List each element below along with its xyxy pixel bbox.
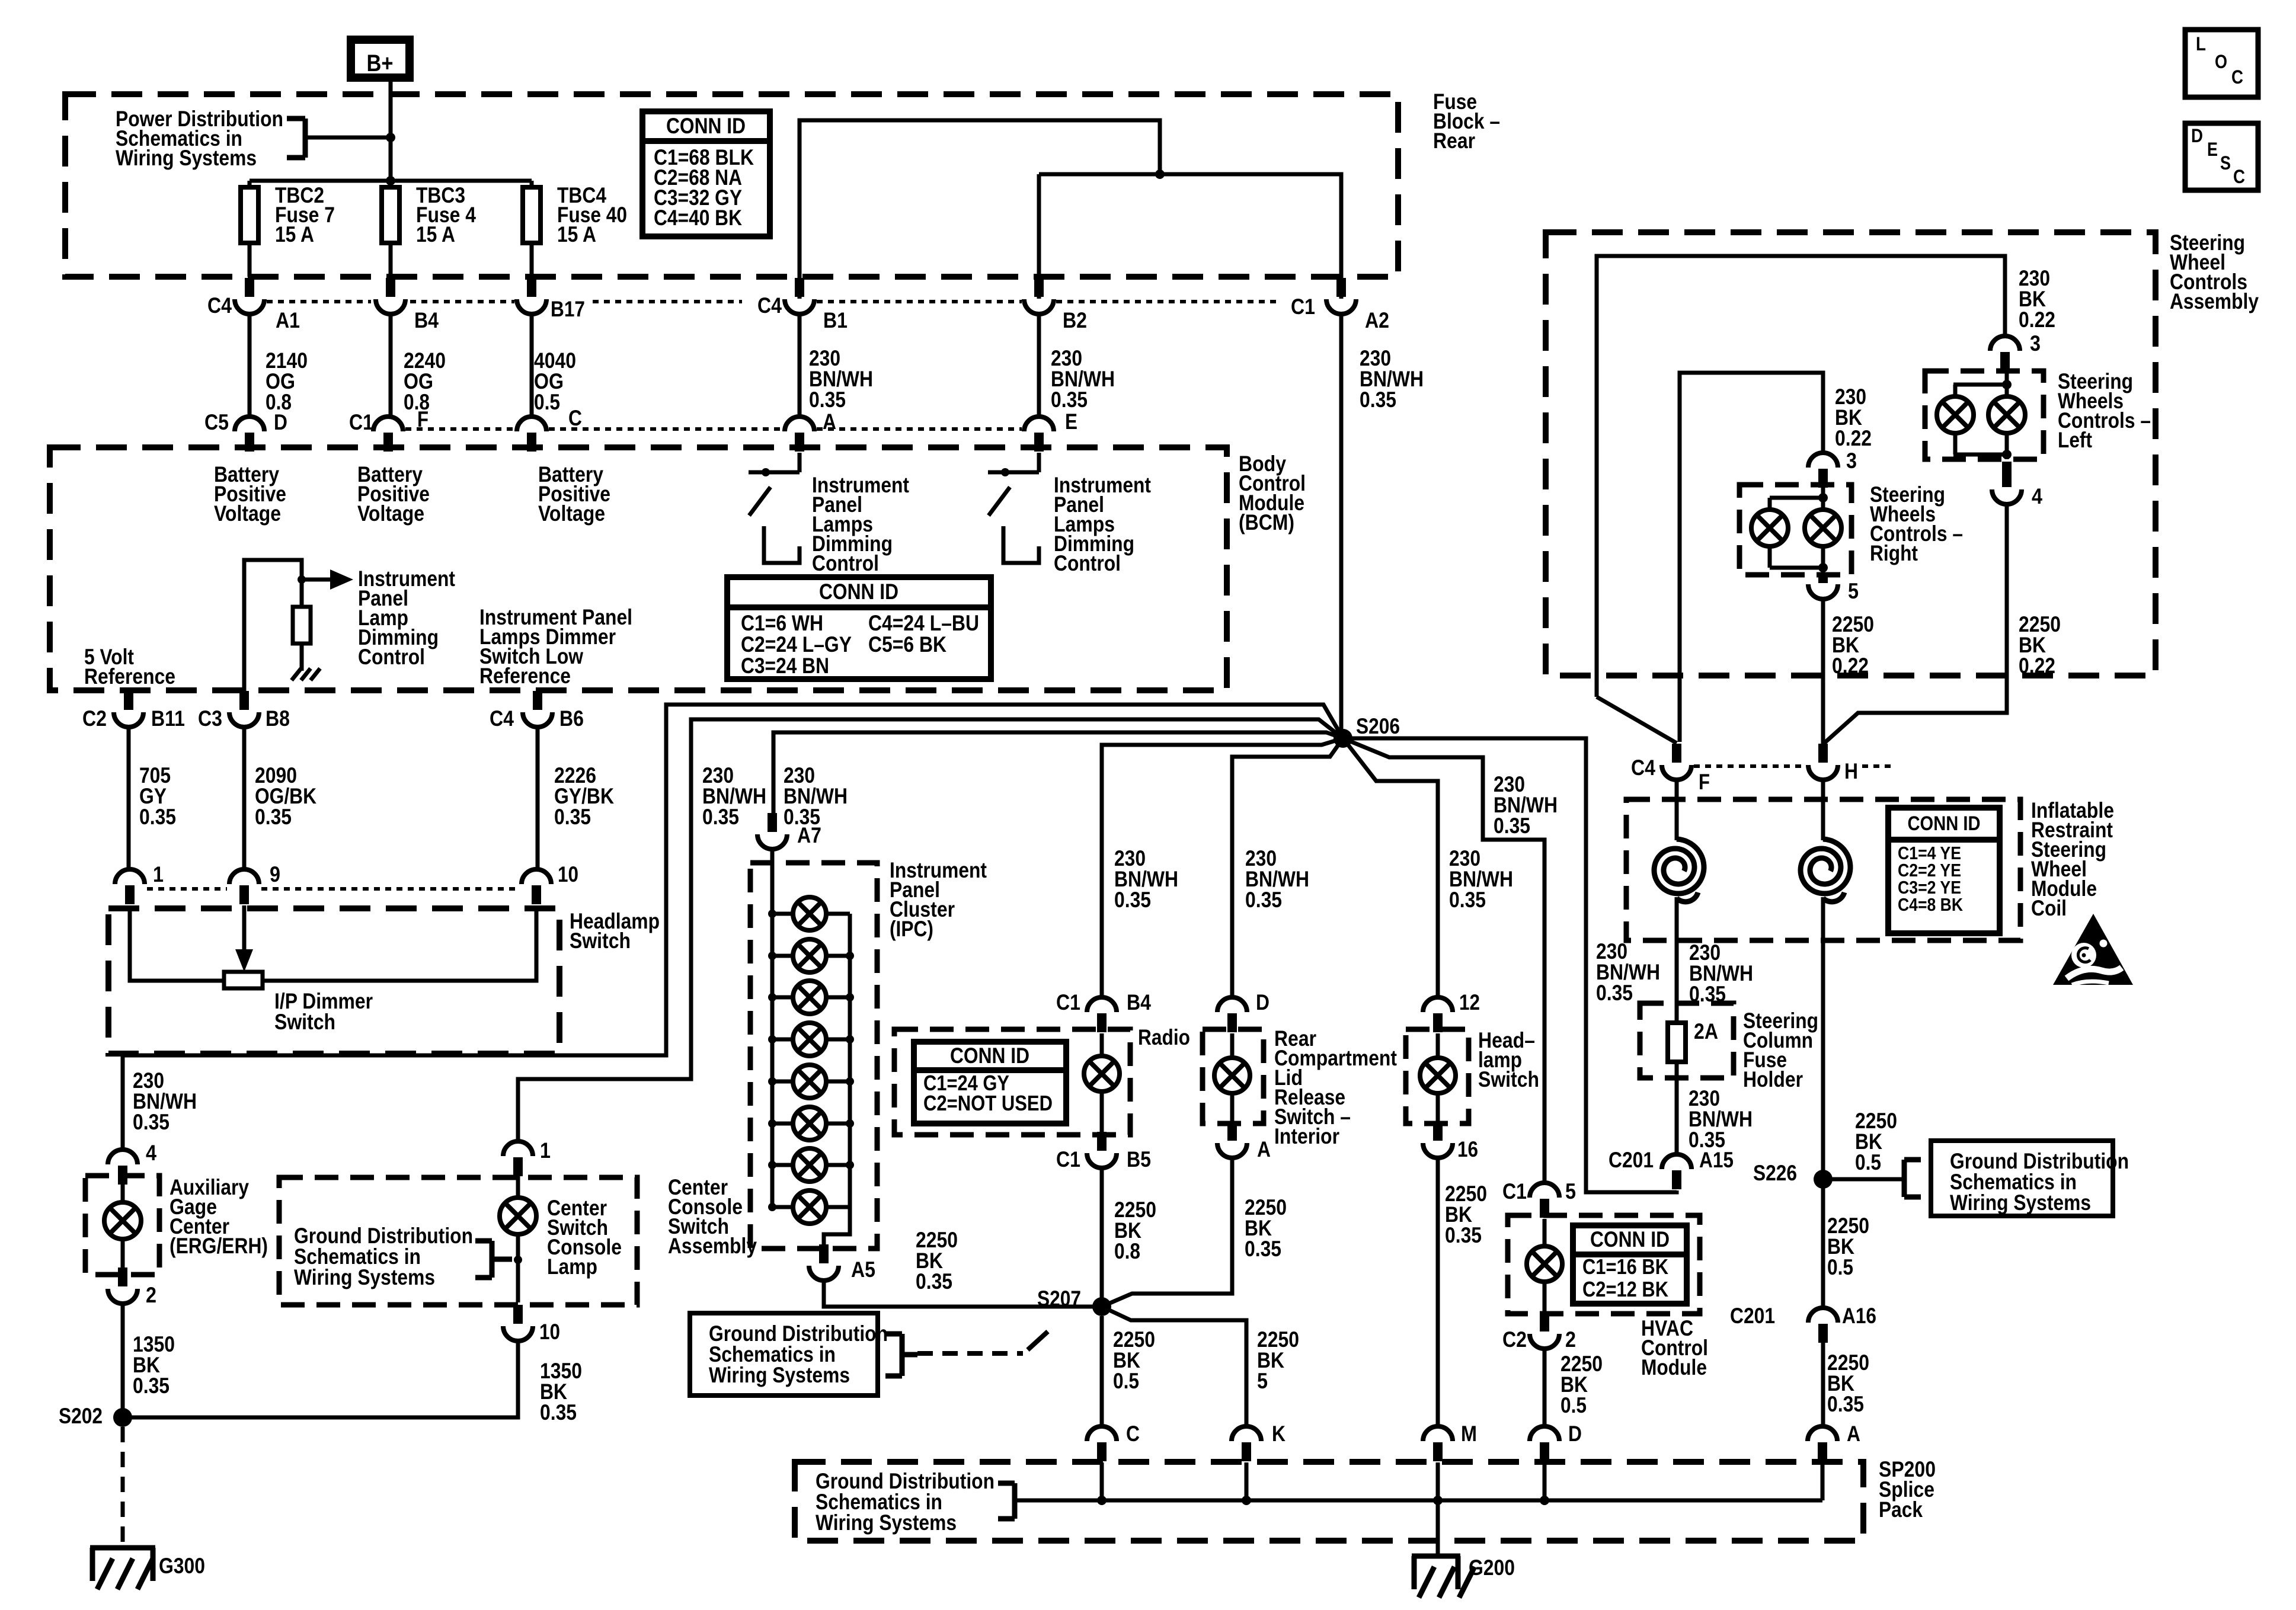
svg-text:0.35: 0.35 xyxy=(916,1269,952,1294)
svg-text:Left: Left xyxy=(2058,428,2092,452)
dotted connector line F-H xyxy=(1694,764,1895,768)
label 2240 OG 0.8 xyxy=(404,348,446,414)
label G200 xyxy=(1469,1555,1515,1580)
inflatable restraint coil dashed box xyxy=(1626,799,2020,940)
svg-text:0.35: 0.35 xyxy=(1245,888,1282,912)
svg-text:S206: S206 xyxy=(1356,714,1400,738)
svg-text:S207: S207 xyxy=(1037,1286,1081,1311)
svg-text:Switch: Switch xyxy=(274,1010,335,1034)
label 2250 BK 0.35 headlamp xyxy=(1445,1182,1487,1247)
svg-text:O: O xyxy=(2215,51,2227,72)
hvac control module dashed box xyxy=(1508,1215,1700,1314)
svg-text:C: C xyxy=(568,406,582,430)
LOC box xyxy=(2185,30,2258,97)
svg-text:CONN ID: CONN ID xyxy=(1590,1227,1670,1251)
headlamp switch lamp dashed box xyxy=(1406,1029,1469,1124)
label Battery Positive Voltage 2 xyxy=(357,462,430,526)
label I/P Dimmer Switch xyxy=(274,989,373,1034)
connector D rear lid xyxy=(1217,990,1269,1032)
label Fuse Block - Rear xyxy=(1433,89,1500,153)
svg-text:B8: B8 xyxy=(266,706,290,731)
connector A ground xyxy=(1808,1422,1860,1461)
svg-text:0.5: 0.5 xyxy=(1560,1393,1587,1417)
label 2250 BK 0.5 S207 xyxy=(1113,1327,1155,1393)
svg-text:15 A: 15 A xyxy=(557,222,596,247)
svg-text:9: 9 xyxy=(270,862,280,886)
arrow ip dimmer wiper xyxy=(235,905,253,972)
connector 9 headlamp switch xyxy=(229,862,280,904)
connector C batt xyxy=(517,406,582,452)
bracket ground note bottom xyxy=(998,1483,1015,1519)
label Inflatable Restraint Steering Wheel Module Coil xyxy=(2031,798,2114,920)
svg-text:Wiring Systems: Wiring Systems xyxy=(1950,1190,2091,1215)
svg-text:A5: A5 xyxy=(851,1257,875,1282)
switch symbol dimming control 1 xyxy=(749,453,800,563)
splice S206 xyxy=(1334,729,1352,748)
svg-text:C4: C4 xyxy=(490,706,514,731)
svg-text:4: 4 xyxy=(2032,484,2042,508)
svg-text:C5: C5 xyxy=(204,410,229,434)
label 1350 BK 0.35 console xyxy=(540,1359,582,1425)
wire S206 to steering column A15 xyxy=(1343,738,1677,1192)
svg-text:C3: C3 xyxy=(198,706,222,731)
svg-text:F: F xyxy=(1699,770,1710,794)
label 1350 BK 0.35 aux xyxy=(133,1332,175,1398)
svg-text:(ERG/ERH): (ERG/ERH) xyxy=(170,1234,268,1258)
label 230 BN/WH 0.35 headlamp col xyxy=(1449,846,1513,912)
wire S206 to IPC A7 xyxy=(773,732,1343,825)
steering column fuse holder dashed box xyxy=(1640,1003,1734,1078)
label 2250 BK 5 xyxy=(1257,1327,1299,1393)
connector 3 steering right xyxy=(1808,449,1857,488)
svg-text:0.35: 0.35 xyxy=(255,805,292,829)
svg-text:5: 5 xyxy=(1848,579,1859,603)
connector C4-A1 xyxy=(207,278,300,332)
svg-text:0.35: 0.35 xyxy=(133,1110,170,1134)
svg-text:A2: A2 xyxy=(1365,308,1389,332)
wire ip dimmer right xyxy=(263,905,536,981)
lamp radio illumination xyxy=(1084,1033,1120,1132)
svg-text:A7: A7 xyxy=(797,823,821,847)
label Battery Positive Voltage 1 xyxy=(214,462,286,526)
label Headlamp Switch xyxy=(570,909,660,953)
svg-text:5: 5 xyxy=(1257,1369,1268,1393)
label 4040 OG 0.5 xyxy=(534,348,576,414)
resistor dimming control xyxy=(293,607,311,644)
svg-text:15 A: 15 A xyxy=(275,222,314,247)
connector C1-A2 xyxy=(1291,278,1389,332)
svg-text:2: 2 xyxy=(1565,1327,1576,1352)
coil spiral right xyxy=(1801,839,1850,902)
wire A16 to A xyxy=(1821,1342,1825,1426)
svg-text:C: C xyxy=(1126,1422,1140,1446)
lamp steering left 2 xyxy=(1988,396,2025,433)
connector D ground xyxy=(1530,1422,1582,1461)
lamp steering right 1 xyxy=(1751,498,1788,546)
label SP200 Splice Pack xyxy=(1879,1457,1936,1522)
wire S202 to G300 dashed xyxy=(121,1427,125,1548)
connector C1-F xyxy=(349,407,428,452)
svg-text:B1: B1 xyxy=(823,308,848,332)
svg-text:Module: Module xyxy=(1641,1355,1707,1379)
label Steering Column Fuse Holder xyxy=(1743,1009,1818,1092)
svg-text:L: L xyxy=(2196,33,2206,55)
splice S207 xyxy=(1092,1297,1111,1316)
svg-text:10: 10 xyxy=(558,862,578,886)
label 230 BN/WH 0.35 aux col xyxy=(133,1068,197,1134)
headlamp switch dashed box xyxy=(108,908,559,1054)
label Steering Wheels Controls Left xyxy=(2058,369,2151,452)
label Radio xyxy=(1138,1025,1190,1049)
wire 705 GY xyxy=(127,727,131,869)
wire S226 to ground note xyxy=(1823,1177,1904,1182)
splice S202 xyxy=(113,1408,132,1427)
svg-text:D: D xyxy=(1256,990,1269,1014)
label 705 GY 0.35 xyxy=(139,763,176,829)
label HVAC Control Module xyxy=(1641,1316,1708,1379)
wire 230 BN/WH col B2 xyxy=(1037,314,1041,417)
svg-text:A1: A1 xyxy=(276,308,300,332)
connector 1 headlamp switch xyxy=(115,862,164,904)
wires steering right box xyxy=(1770,485,1828,575)
wire A5 to S207 xyxy=(824,1281,1093,1307)
connector B2 fuse block xyxy=(1024,278,1087,332)
svg-text:0.8: 0.8 xyxy=(1114,1239,1140,1263)
label Steering Wheel Controls Assembly xyxy=(2170,231,2259,313)
wire M to bus and G200 xyxy=(1433,1462,1443,1556)
ground distribution note box mid xyxy=(690,1313,888,1395)
svg-text:C1: C1 xyxy=(1056,990,1080,1014)
label 5 Volt Reference xyxy=(84,645,175,689)
connector 3 steering left xyxy=(1990,331,2041,371)
conn-id box coil xyxy=(1888,808,2000,933)
wire TBC2 to A1 xyxy=(248,243,252,277)
wire 230 BN/WH col A2 xyxy=(1339,314,1344,732)
wire S206 to hvac 5 xyxy=(1343,738,1544,1183)
label 230 BN/WH 0.35 col B2 xyxy=(1051,346,1115,412)
dotted connector line row2 xyxy=(405,427,1022,431)
bracket console ground note xyxy=(475,1241,512,1278)
svg-text:Wiring Systems: Wiring Systems xyxy=(816,1510,957,1535)
svg-text:C201: C201 xyxy=(1730,1304,1775,1328)
connector 5 steering right xyxy=(1808,575,1859,603)
svg-text:0.35: 0.35 xyxy=(540,1400,577,1425)
svg-text:0.35: 0.35 xyxy=(1245,1237,1281,1261)
svg-text:A: A xyxy=(1257,1137,1271,1161)
wire 230 BN/WH col B1 xyxy=(798,314,802,417)
connector E bcm dim xyxy=(1024,409,1077,452)
wire U1 diagonal to F xyxy=(1597,697,1677,743)
svg-text:S: S xyxy=(2220,152,2231,174)
wire F into coil xyxy=(1675,780,1679,840)
svg-text:B2: B2 xyxy=(1063,308,1087,332)
sp200 splice pack dashed box xyxy=(795,1462,1863,1541)
svg-text:C1: C1 xyxy=(1291,295,1315,319)
svg-text:Coil: Coil xyxy=(2031,896,2067,920)
connector 10 headlamp switch xyxy=(522,862,578,904)
svg-text:Lamp: Lamp xyxy=(547,1254,597,1279)
junction dot on B+ stem (bracket tap) xyxy=(386,133,395,142)
wire U1 to conn3 left xyxy=(1597,256,2005,697)
label G300 xyxy=(159,1554,205,1578)
svg-text:0.35: 0.35 xyxy=(1494,814,1530,838)
wire S202 to console 10 xyxy=(123,1340,518,1417)
svg-text:A: A xyxy=(1847,1422,1860,1446)
connector C4-F xyxy=(1631,744,1710,794)
svg-text:E: E xyxy=(1065,409,1077,434)
label 2250 BK 0.22 right col xyxy=(2019,612,2061,678)
svg-text:A15: A15 xyxy=(1699,1148,1734,1172)
connector 16 headlamp xyxy=(1423,1122,1478,1161)
svg-text:Assembly: Assembly xyxy=(668,1234,757,1258)
svg-text:Reference: Reference xyxy=(84,664,175,689)
svg-text:D: D xyxy=(2191,125,2203,146)
radio dashed box xyxy=(894,1029,1130,1135)
svg-text:Switch: Switch xyxy=(570,929,631,953)
svg-text:C4: C4 xyxy=(207,293,232,318)
svg-text:C1: C1 xyxy=(349,410,373,434)
svg-text:0.35: 0.35 xyxy=(1827,1392,1864,1416)
wire 2140 OG xyxy=(248,314,252,417)
resistor I/P dimmer xyxy=(224,972,263,988)
svg-text:D: D xyxy=(1568,1422,1582,1446)
svg-text:S226: S226 xyxy=(1753,1161,1797,1185)
svg-text:M: M xyxy=(1461,1422,1477,1446)
label 230 BN/WH 0.35 radio col xyxy=(1114,846,1178,912)
connector A7 IPC xyxy=(757,813,821,849)
svg-text:0.22: 0.22 xyxy=(2019,654,2055,678)
wire S206 to rear lid D xyxy=(1232,738,1343,997)
svg-text:Control: Control xyxy=(358,645,425,669)
svg-text:0.35: 0.35 xyxy=(1596,981,1633,1005)
svg-text:0.5: 0.5 xyxy=(1855,1150,1881,1174)
label 230 BN/WH 0.35 column left xyxy=(1596,939,1660,1005)
svg-text:4: 4 xyxy=(146,1141,156,1165)
conn-id box radio xyxy=(914,1042,1066,1124)
connector C2-2 hvac xyxy=(1502,1313,1576,1352)
label Steering Wheels Controls Right xyxy=(1870,482,1963,565)
svg-text:C: C xyxy=(2231,66,2243,88)
lamp headlamp switch illumination xyxy=(1420,1033,1456,1121)
label 2090 OG/BK 0.35 xyxy=(255,763,316,829)
wire S206 to headlamp 12 xyxy=(1343,738,1438,997)
svg-text:0.35: 0.35 xyxy=(702,805,739,829)
connector C201-A16 xyxy=(1730,1304,1876,1343)
svg-text:B6: B6 xyxy=(559,706,584,731)
connector A5 IPC xyxy=(809,1244,875,1282)
svg-text:(BCM): (BCM) xyxy=(1239,510,1294,534)
wire A to bus xyxy=(1821,1462,1825,1500)
lamp steering left 1 xyxy=(1937,385,1974,433)
label 2250 BK 0.5 hvac xyxy=(1560,1352,1603,1417)
svg-text:0.35: 0.35 xyxy=(1114,888,1151,912)
steering wheels controls left dashed box xyxy=(1925,371,2044,459)
svg-text:Voltage: Voltage xyxy=(538,501,605,526)
svg-text:K: K xyxy=(1272,1422,1285,1446)
connector C3-B8 xyxy=(198,691,290,731)
label 230 BN/WH 0.35 col B1 xyxy=(809,346,873,412)
wire fuse block to B1/B2/A2 xyxy=(800,120,1341,299)
lamp center switch console xyxy=(500,1176,536,1302)
svg-text:CONN ID: CONN ID xyxy=(950,1044,1029,1068)
svg-text:CONN ID: CONN ID xyxy=(666,114,746,138)
airbag warning triangle xyxy=(2053,914,2133,985)
fuse TBC2 Fuse 7 15A xyxy=(241,181,335,247)
body control module dashed box xyxy=(50,447,1227,690)
svg-text:C1: C1 xyxy=(1056,1147,1080,1172)
label Instrument Panel Lamp Dimming Control xyxy=(358,566,455,669)
coil spiral left xyxy=(1654,839,1704,902)
connector 1 console xyxy=(503,1138,551,1176)
svg-text:0.35: 0.35 xyxy=(1449,888,1486,912)
junction dot console lamp ground tap xyxy=(514,1256,522,1264)
label 2250 BK 0.8 xyxy=(1114,1198,1156,1263)
svg-text:0.22: 0.22 xyxy=(1832,654,1869,678)
connector C201-A15 xyxy=(1609,1148,1734,1189)
ground bus wire xyxy=(1015,1499,1822,1503)
label Instrument Panel Lamps Dimming Control 2 xyxy=(1054,473,1151,575)
junction dot arrow tap xyxy=(298,575,306,584)
label 230 BN/WH 0.35 col A2 xyxy=(1360,346,1424,412)
svg-text:0.35: 0.35 xyxy=(133,1374,170,1398)
svg-text:Control: Control xyxy=(1054,551,1121,575)
svg-text:H: H xyxy=(1844,759,1858,783)
label Instrument Panel Lamps Dimming Control 1 xyxy=(812,473,909,575)
svg-text:10: 10 xyxy=(539,1320,560,1344)
svg-text:C2=NOT USED: C2=NOT USED xyxy=(923,1091,1053,1115)
svg-text:D: D xyxy=(274,410,287,434)
steering wheels controls right dashed box xyxy=(1739,485,1851,575)
bracket ground note mid xyxy=(885,1334,917,1376)
svg-text:G200: G200 xyxy=(1469,1555,1515,1580)
wire C to bus xyxy=(1097,1462,1107,1505)
dotted connector line row1 xyxy=(267,300,1279,303)
ground internal BCM xyxy=(292,668,320,680)
dashed leader to S207 xyxy=(917,1331,1048,1353)
IPC lamp chain with 8 cluster lamps xyxy=(768,849,854,1248)
svg-text:C2=24 L–GY: C2=24 L–GY xyxy=(741,632,852,657)
connector K ground xyxy=(1232,1422,1285,1461)
fuse TBC3 Fuse 4 15A xyxy=(382,183,476,247)
label 2140 OG 0.8 xyxy=(266,348,308,414)
wire 2240 OG xyxy=(389,314,393,417)
label S207 xyxy=(1037,1286,1081,1311)
svg-text:Wiring Systems: Wiring Systems xyxy=(709,1363,850,1387)
svg-text:0.5: 0.5 xyxy=(1827,1255,1853,1279)
splice S226 xyxy=(1814,1170,1833,1189)
ground G200 xyxy=(1412,1556,1475,1598)
label Rear Compartment Lid Release Switch Interior xyxy=(1274,1026,1397,1148)
svg-text:0.35: 0.35 xyxy=(809,388,846,412)
connector 4 steering left xyxy=(1992,462,2042,508)
svg-text:B11: B11 xyxy=(151,706,185,731)
svg-text:Interior: Interior xyxy=(1274,1124,1339,1148)
svg-text:Holder: Holder xyxy=(1743,1067,1803,1092)
svg-text:C: C xyxy=(2233,166,2245,187)
wire S207 to C xyxy=(1100,1316,1104,1426)
label 230 BN/WH 0.35 rear lid col xyxy=(1245,846,1309,912)
steering wheel controls assembly dashed box xyxy=(1546,232,2156,676)
label S202 xyxy=(59,1404,103,1428)
label S206 xyxy=(1356,714,1400,738)
label S226 xyxy=(1753,1161,1797,1185)
svg-text:0.35: 0.35 xyxy=(1051,388,1088,412)
label Center Switch Console Lamp xyxy=(547,1196,622,1279)
svg-text:Switch: Switch xyxy=(1478,1067,1539,1092)
svg-text:C4: C4 xyxy=(757,293,782,318)
svg-text:3: 3 xyxy=(2030,331,2041,356)
svg-text:Pack: Pack xyxy=(1879,1497,1923,1522)
wire TBC4 to B17 xyxy=(530,243,534,277)
arrow instrument panel lamp dimming control xyxy=(302,569,353,590)
svg-text:0.5: 0.5 xyxy=(1113,1369,1139,1393)
label Battery Positive Voltage 3 xyxy=(538,462,610,526)
fuse block rear dashed box xyxy=(65,94,1398,277)
label 2250 BK 0.5 below S226 xyxy=(1827,1214,1869,1279)
svg-text:12: 12 xyxy=(1459,990,1480,1014)
wire H into coil xyxy=(1821,780,1825,840)
lamp rear lid switch xyxy=(1214,1033,1250,1121)
label Ground Distribution note console xyxy=(294,1224,473,1289)
svg-text:0.35: 0.35 xyxy=(139,805,176,829)
svg-text:S202: S202 xyxy=(59,1404,103,1428)
svg-text:16: 16 xyxy=(1457,1137,1478,1161)
wire S207 to K branch xyxy=(1102,1307,1246,1426)
wire U2 to conn3 right xyxy=(1680,373,1823,742)
svg-text:1: 1 xyxy=(540,1138,551,1163)
wire fuse to A15 xyxy=(1675,1062,1679,1153)
wire 16 to M xyxy=(1436,1158,1440,1426)
svg-text:2A: 2A xyxy=(1694,1019,1718,1044)
svg-text:Assembly: Assembly xyxy=(2170,289,2259,313)
wires steering left box xyxy=(1953,372,2012,459)
svg-text:CONN ID: CONN ID xyxy=(1908,812,1981,835)
wire 2 to S202 xyxy=(121,1304,125,1417)
svg-text:Reference: Reference xyxy=(479,664,571,688)
conn-id box bcm xyxy=(727,577,991,679)
wire S206 to aux gage xyxy=(123,705,1343,1150)
svg-text:Voltage: Voltage xyxy=(214,501,281,526)
svg-text:C4=24 L–BU: C4=24 L–BU xyxy=(868,611,979,635)
wire F coil out xyxy=(1675,897,1679,1023)
connector C4-B6 xyxy=(490,691,584,731)
label 230 BN/WH 0.35 column right xyxy=(1689,940,1753,1006)
label 2250 BK 0.35 A16 xyxy=(1827,1350,1869,1416)
svg-text:1: 1 xyxy=(153,862,164,886)
label 230 BK 0.22 left group xyxy=(2019,266,2055,332)
ground G300 xyxy=(90,1548,155,1589)
svg-text:C2=12 BK: C2=12 BK xyxy=(1582,1277,1668,1301)
label 2226 GY/BK 0.35 xyxy=(554,763,614,829)
wire D to bus xyxy=(1540,1462,1549,1505)
label Ground Distribution note bottom xyxy=(816,1469,994,1535)
lamp aux gage xyxy=(104,1180,141,1272)
wire B+ stem xyxy=(389,82,393,187)
svg-text:0.22: 0.22 xyxy=(2019,308,2055,332)
switch symbol dimming control 2 xyxy=(988,453,1039,563)
svg-text:C201: C201 xyxy=(1609,1148,1654,1172)
wire ip dimmer left xyxy=(130,905,224,981)
connector B17 fuse block xyxy=(517,278,585,321)
connector C1-5 hvac xyxy=(1502,1179,1576,1218)
svg-text:2: 2 xyxy=(146,1283,156,1307)
svg-text:B+: B+ xyxy=(367,50,394,76)
svg-text:(IPC): (IPC) xyxy=(890,917,933,941)
lamp steering right 2 xyxy=(1805,510,1841,546)
svg-text:Wiring Systems: Wiring Systems xyxy=(116,146,257,170)
label Body Control Module (BCM) xyxy=(1239,452,1306,534)
connector A bcm dim xyxy=(785,409,836,452)
